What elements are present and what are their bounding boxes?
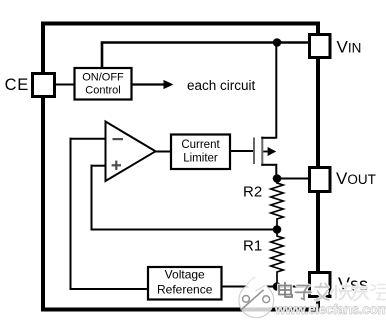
wire Current Limiter to gate [230,150,254,152]
svg-text:each circuit: each circuit [187,78,256,93]
Current Limiter block [171,135,230,170]
wire op-amp output [155,151,171,153]
wire feedback rail to divider tap [91,229,278,231]
svg-text:VOUT: VOUT [336,169,376,188]
node VOUT junction [273,174,282,183]
svg-text:VIN: VIN [337,38,362,57]
node VSS junction [273,282,282,291]
wire Voltage Reference to VSS rail [222,286,310,288]
wire op-amp inverting input [70,138,107,140]
svg-text:Control: Control [85,85,120,97]
ON/OFF Control block [75,68,132,100]
node divider tap [273,225,282,234]
svg-text:R2: R2 [243,184,262,201]
wire non-inverting vertical [91,165,93,230]
wire top rail to VIN [101,41,310,43]
pin VSS box [310,273,331,297]
watermark logo circle [239,277,274,318]
wire drain drop from VIN rail [275,43,277,139]
resistor R1 [271,230,283,287]
watermark glyph 6 partial at edge [371,285,386,300]
node VIN junction [273,38,282,47]
watermark CJK text 电子发烧友 (approximated strokes) [279,283,368,301]
svg-text:Voltage: Voltage [165,268,205,282]
wire VOUT rail [277,178,310,180]
op-amp U1 [106,122,156,182]
svg-text:Reference: Reference [157,283,213,297]
transistor Q1 pass MOSFET [254,137,276,179]
pin VOUT box [310,168,331,192]
wire op-amp non-inverting input [91,165,107,167]
wire ON/OFF Control top vertical [101,43,104,69]
wire to Voltage Reference left [70,288,149,290]
pin CE box [33,74,55,97]
svg-text:CE: CE [5,76,29,94]
svg-text:ON/OFF: ON/OFF [82,71,124,83]
wire inverting feedback vertical [70,138,72,289]
svg-text:www.elecfans.com: www.elecfans.com [274,302,386,317]
svg-text:R1: R1 [243,237,262,254]
wire arrow to each circuit [132,83,165,85]
Voltage Reference block [148,267,222,300]
svg-text:Current: Current [181,139,220,151]
pin VIN box [310,35,331,58]
IC outer boundary [43,24,318,310]
resistor R2 [271,179,283,230]
wire CE to ON/OFF Control [56,84,74,86]
svg-text:Limiter: Limiter [183,152,218,164]
